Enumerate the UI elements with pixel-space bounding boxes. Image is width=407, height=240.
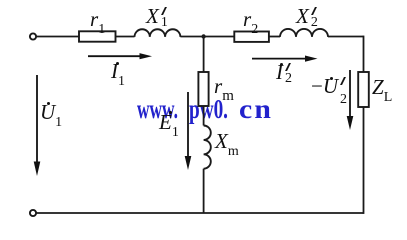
label r2 (243, 9, 258, 35)
wire right vertical lower (363, 107, 365, 214)
emf arrow E1 (185, 92, 192, 170)
watermark www.pw0.cn (137, 94, 178, 125)
label I1 (111, 61, 125, 87)
wire mid branch upper (203, 37, 205, 73)
load Z_L (358, 72, 369, 107)
label U1 (40, 102, 62, 128)
wire top: terminal to r1 (36, 36, 79, 38)
wire r_m to X_m (203, 106, 205, 126)
wire r2 to X'2 (269, 36, 280, 38)
resistor r1 (79, 31, 116, 41)
label X'2 (296, 6, 320, 27)
inductor X'2 (280, 29, 328, 37)
label -U2' (311, 76, 349, 97)
node junction dot (201, 34, 205, 38)
label X'1 (146, 6, 170, 27)
terminal bottom-left (30, 210, 36, 216)
label r1 (90, 9, 105, 35)
label X_m (215, 131, 239, 157)
label Z_L (372, 77, 392, 103)
wire X'2 to right corner (328, 36, 364, 38)
current arrow I1 (88, 53, 152, 59)
label I2' (276, 62, 294, 83)
wire X_m to bottom (203, 169, 205, 213)
label r_m (214, 76, 234, 102)
voltage arrow U1 (34, 75, 41, 176)
terminal top-left (30, 33, 36, 39)
inductor X_m (204, 126, 211, 169)
resistor r2 (234, 32, 269, 42)
wire X'1 to r2 (through node) (180, 36, 234, 38)
current arrow I2' (252, 56, 318, 62)
resistor r_m (198, 72, 208, 106)
inductor X'1 (135, 29, 181, 37)
label E1 (159, 112, 179, 138)
wire r1 to X'1 (116, 36, 135, 38)
voltage arrow -U2' (347, 70, 354, 130)
wire bottom (36, 212, 363, 214)
wire right vertical upper (363, 36, 365, 72)
